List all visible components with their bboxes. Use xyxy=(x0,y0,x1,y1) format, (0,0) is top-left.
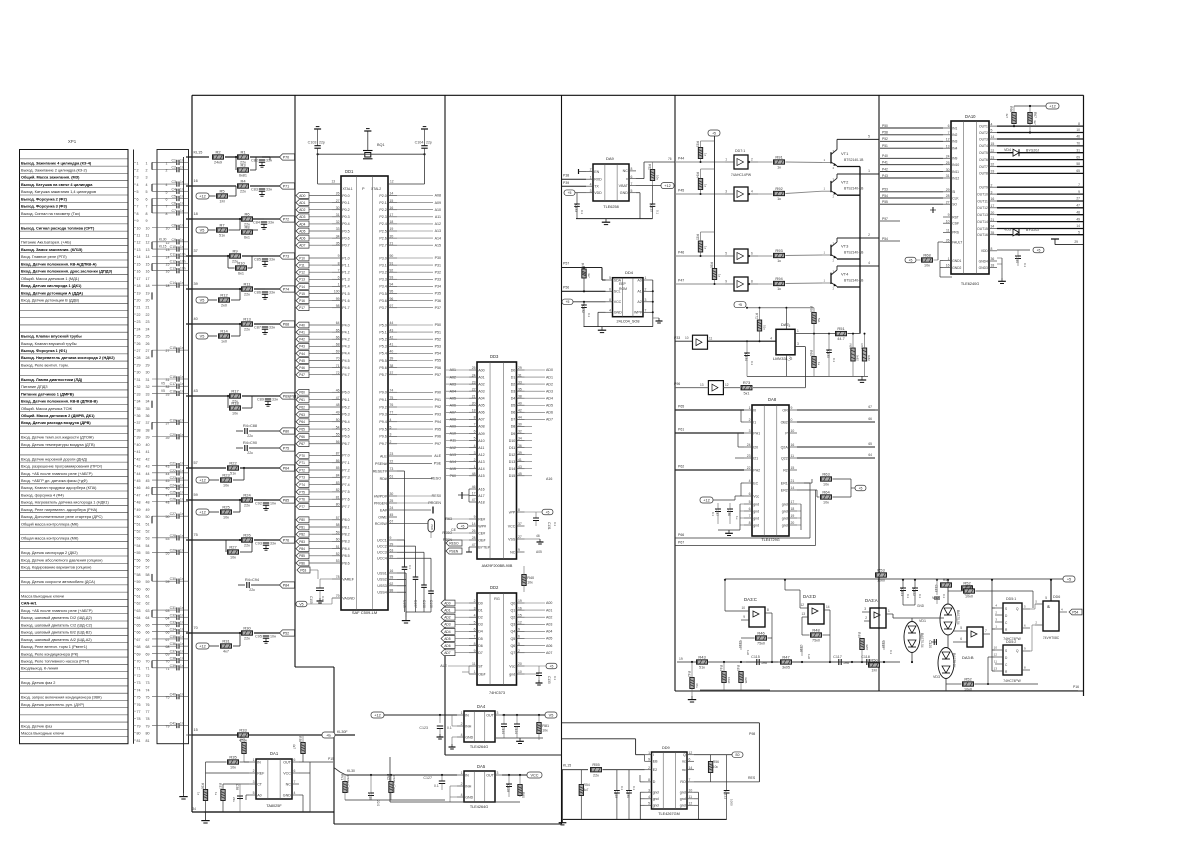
DA8 pin gnd 17 xyxy=(789,503,797,505)
svg-text:R14: R14 xyxy=(220,328,228,333)
power flag +12 d xyxy=(196,643,209,649)
resistor R60 xyxy=(812,357,816,368)
resistor R37 xyxy=(221,790,225,801)
svg-text:P5.4: P5.4 xyxy=(379,352,386,356)
svg-text:CT: CT xyxy=(257,782,263,786)
wire p67 path xyxy=(675,545,816,547)
svg-text:9: 9 xyxy=(146,219,148,223)
svg-text:OUT15: OUT15 xyxy=(977,227,988,231)
svg-text:44: 44 xyxy=(146,472,150,476)
svg-text:DA1: DA1 xyxy=(270,751,279,756)
wire da10 gnd xyxy=(997,257,1002,259)
svg-text:C86: C86 xyxy=(254,291,261,295)
voltage regulator DA5 TLE4264G xyxy=(464,771,495,802)
svg-text:6: 6 xyxy=(166,198,168,202)
svg-text:R84: R84 xyxy=(696,172,700,178)
DD1 pin P4.4 xyxy=(332,352,341,354)
svg-text:ALE: ALE xyxy=(440,664,447,668)
svg-text:C3: C3 xyxy=(172,180,177,184)
svg-text:DA3:B: DA3:B xyxy=(962,655,974,660)
svg-text:Масса Выходные ключи: Масса Выходные ключи xyxy=(21,732,64,736)
svg-text:1М: 1М xyxy=(219,200,224,204)
svg-text:R62: R62 xyxy=(430,524,434,530)
svg-text:66: 66 xyxy=(146,631,150,635)
svg-text:1н0: 1н0 xyxy=(746,650,750,655)
svg-text:1: 1 xyxy=(338,283,340,287)
svg-text:21: 21 xyxy=(472,394,476,398)
svg-text:C115: C115 xyxy=(751,655,760,659)
svg-text:16: 16 xyxy=(194,179,198,183)
svg-text:58: 58 xyxy=(146,573,150,577)
power flag +B xyxy=(322,732,335,738)
svg-text:65: 65 xyxy=(868,442,872,446)
svg-text:79: 79 xyxy=(336,594,340,598)
resistor R67 xyxy=(1028,113,1032,124)
svg-text:7: 7 xyxy=(146,205,148,209)
svg-text:P65: P65 xyxy=(678,405,684,409)
svg-text:19: 19 xyxy=(791,514,795,518)
comparator DA7 LMV331 xyxy=(776,329,795,355)
svg-text:P81: P81 xyxy=(299,525,305,529)
svg-text:D13: D13 xyxy=(509,460,516,464)
svg-text:DA3:C: DA3:C xyxy=(744,597,757,602)
DD1 pin P6.5 xyxy=(332,428,341,430)
svg-text:1: 1 xyxy=(253,758,255,762)
svg-text:P3.2: P3.2 xyxy=(379,271,386,275)
svg-text:P3.5: P3.5 xyxy=(379,292,386,296)
svg-text:87: 87 xyxy=(336,452,340,456)
svg-text:BTS2140-1B: BTS2140-1B xyxy=(844,279,864,283)
svg-text:+5: +5 xyxy=(550,664,554,668)
svg-text:Q0: Q0 xyxy=(511,601,516,605)
svg-text:OB2: OB2 xyxy=(781,420,788,424)
svg-text:Выход. Реле нагревател. адсорб: Выход. Реле нагревател. адсорбера (РНА) xyxy=(21,508,98,512)
svg-text:77: 77 xyxy=(137,710,141,714)
svg-text:R81: R81 xyxy=(542,724,549,728)
svg-text:59: 59 xyxy=(194,493,198,497)
svg-text:25: 25 xyxy=(390,499,394,503)
DD1 pin P9.5 xyxy=(388,428,397,430)
svg-text:75: 75 xyxy=(137,696,141,700)
svg-text:Вход/выход. К-линия: Вход/выход. К-линия xyxy=(21,667,58,671)
svg-text:57: 57 xyxy=(336,516,340,520)
diode assembly VD3 BAS70-04 xyxy=(938,648,954,679)
svg-text:P46: P46 xyxy=(299,366,305,370)
svg-text:9: 9 xyxy=(474,515,476,519)
svg-text:V5: V5 xyxy=(549,713,554,717)
svg-text:A14: A14 xyxy=(435,236,441,240)
svg-text:Выход. Замок зажигания. (КЛ15: Выход. Замок зажигания. (КЛ15) xyxy=(21,248,83,252)
net flag P74 xyxy=(280,286,295,292)
svg-text:P1.0: P1.0 xyxy=(342,256,349,260)
svg-text:А05: А05 xyxy=(536,550,542,554)
svg-text:OUT11: OUT11 xyxy=(977,199,988,203)
svg-text:C1: C1 xyxy=(172,158,177,162)
svg-text:P54: P54 xyxy=(882,237,888,241)
svg-text:AD6: AD6 xyxy=(546,411,553,415)
svg-text:AD0: AD0 xyxy=(444,601,451,605)
wire da5 out xyxy=(502,774,527,776)
svg-text:0.1: 0.1 xyxy=(553,676,557,681)
svg-text:R11: R11 xyxy=(243,281,251,286)
svg-text:P80: P80 xyxy=(283,429,289,433)
svg-text:1000: 1000 xyxy=(730,799,734,806)
svg-text:1: 1 xyxy=(749,406,751,410)
svg-text:R40: R40 xyxy=(527,576,534,580)
DA10 pin OUT16 xyxy=(989,234,997,236)
svg-text:TLE6258: TLE6258 xyxy=(603,205,618,209)
bottom rail da1 xyxy=(204,811,310,813)
svg-text:AD4: AD4 xyxy=(444,630,451,634)
svg-text:35: 35 xyxy=(991,231,995,235)
svg-text:P8.3: P8.3 xyxy=(342,540,349,544)
svg-text:R4=C90: R4=C90 xyxy=(243,441,257,445)
svg-text:C136: C136 xyxy=(727,508,731,516)
svg-text:2к0: 2к0 xyxy=(221,304,227,308)
wire dd4 gnd xyxy=(598,311,606,313)
svg-text:A10: A10 xyxy=(435,208,441,212)
frame border bottom right section xyxy=(675,690,1084,692)
svg-text:A11: A11 xyxy=(435,215,441,219)
resistor R38 xyxy=(301,743,305,754)
resistor R51 xyxy=(941,583,952,587)
DD1 pin P5.3 xyxy=(388,345,397,347)
svg-text:P2.3: P2.3 xyxy=(379,215,386,219)
opamp DA3:C xyxy=(749,607,765,627)
DD1 pin PSEN xyxy=(388,463,397,465)
connector XP1 table frame xyxy=(20,150,129,744)
svg-text:R58: R58 xyxy=(849,343,853,349)
svg-text:8: 8 xyxy=(648,778,650,782)
svg-text:Вход. Датчик детонации А (ДДА: Вход. Датчик детонации А (ДДА) xyxy=(21,291,84,295)
DD2 pin D3 xyxy=(469,623,477,625)
svg-text:39: 39 xyxy=(518,451,522,455)
svg-text:0к82: 0к82 xyxy=(867,355,871,361)
net flag P85 xyxy=(280,497,295,503)
svg-text:25: 25 xyxy=(472,366,476,370)
svg-text:7: 7 xyxy=(474,423,476,427)
DD3 pin A06 xyxy=(469,411,477,413)
svg-text:I20: I20 xyxy=(753,445,758,449)
svg-text:65: 65 xyxy=(1076,169,1080,173)
svg-text:R51: R51 xyxy=(837,326,845,331)
svg-text:gnd: gnd xyxy=(753,523,759,527)
svg-text:22: 22 xyxy=(390,460,394,464)
svg-text:3: 3 xyxy=(137,176,139,180)
DD1 pin P7.4 xyxy=(332,484,341,486)
DD1 pin P8.0 xyxy=(332,519,341,521)
svg-text:4: 4 xyxy=(770,337,772,341)
DD1 pin P2.5 xyxy=(388,230,397,232)
svg-text:Выход. шаговый двигатель D/2: Выход. шаговый двигатель D/2 (ШД-Д2) xyxy=(21,616,93,620)
capacitor C130dd2 xyxy=(538,666,540,673)
svg-text:23: 23 xyxy=(137,320,141,324)
svg-text:5: 5 xyxy=(648,802,650,806)
resistor R35 xyxy=(228,760,239,764)
svg-text:4: 4 xyxy=(648,795,650,799)
svg-text:OUT14: OUT14 xyxy=(977,220,988,224)
svg-text:+5: +5 xyxy=(738,303,742,307)
svg-text:100: 100 xyxy=(334,290,340,294)
svg-text:BTS2140-1B: BTS2140-1B xyxy=(844,187,864,191)
svg-text:A18: A18 xyxy=(478,500,484,504)
DA10 pin IN12 xyxy=(943,177,951,179)
svg-text:P75: P75 xyxy=(299,490,305,494)
svg-text:KL30F: KL30F xyxy=(337,730,348,734)
svg-text:R86: R86 xyxy=(710,262,714,268)
svg-text:vPP: vPP xyxy=(509,510,516,514)
svg-text:R2: R2 xyxy=(783,468,788,472)
svg-text:KL15: KL15 xyxy=(194,151,203,155)
DD3 pin A00 xyxy=(469,369,477,371)
svg-text:A00: A00 xyxy=(478,368,484,372)
capacitor bank box xyxy=(157,150,189,744)
svg-text:10: 10 xyxy=(946,219,950,223)
power flag +5 da8 xyxy=(855,485,866,491)
power flag +5 dd3 xyxy=(542,509,553,515)
svg-text:2: 2 xyxy=(590,168,592,172)
svg-text:P54: P54 xyxy=(435,352,441,356)
svg-text:30: 30 xyxy=(946,168,950,172)
svg-text:P9.2: P9.2 xyxy=(379,405,386,409)
wire vd1 bottom xyxy=(911,653,913,663)
DA10 pin OUT14 xyxy=(989,221,997,223)
svg-text:RO: RO xyxy=(680,780,686,784)
wire bottom gnd rail left xyxy=(345,799,445,801)
svg-text:P90: P90 xyxy=(435,391,441,395)
capacitor C137 xyxy=(717,503,719,509)
svg-text:4к7: 4к7 xyxy=(292,744,296,749)
svg-text:2: 2 xyxy=(518,649,520,653)
DA7 pin 3 wire xyxy=(795,346,805,348)
svg-text:BAS70-04: BAS70-04 xyxy=(956,610,960,625)
svg-text:6: 6 xyxy=(948,124,950,128)
svg-text:+12: +12 xyxy=(199,644,205,648)
svg-text:6: 6 xyxy=(294,769,296,773)
svg-text:EEP: EEP xyxy=(619,282,627,286)
svg-text:P2.0: P2.0 xyxy=(379,194,386,198)
svg-text:P47: P47 xyxy=(299,373,305,377)
svg-text:82: 82 xyxy=(336,488,340,492)
svg-text:R34: R34 xyxy=(239,736,243,742)
svg-text:Вход. +АБ после главного реле: Вход. +АБ после главного реле (+АБГР) xyxy=(21,472,93,476)
wire dd9 gnd left xyxy=(640,791,644,793)
svg-text:P1.2: P1.2 xyxy=(342,271,349,275)
resistor R94 xyxy=(774,281,785,285)
svg-text:19: 19 xyxy=(137,291,141,295)
power flag +12 xyxy=(196,193,209,199)
svg-text:D2: D2 xyxy=(478,616,483,620)
frame border left panel divider x192 xyxy=(191,95,193,735)
svg-text:77: 77 xyxy=(390,411,394,415)
DD1 pin P8.2 xyxy=(332,533,341,535)
wire dd4 gnd rail xyxy=(584,326,653,328)
svg-text:P70: P70 xyxy=(283,155,289,159)
capacitor C87 xyxy=(262,326,268,328)
resistor R73 xyxy=(741,386,752,390)
svg-text:P5.5: P5.5 xyxy=(379,359,386,363)
DA10 pin IN4 xyxy=(943,147,951,149)
frame border top xyxy=(192,94,1084,96)
resistor R18 xyxy=(230,406,241,410)
DD2 pin D7 xyxy=(469,652,477,654)
svg-text:40: 40 xyxy=(137,443,141,447)
svg-text:Общий. Масса датчиков 2 (ДМРВ: Общий. Масса датчиков 2 (ДМРВ, ДК1) xyxy=(21,414,95,418)
svg-text:1: 1 xyxy=(474,670,476,674)
svg-text:P30: P30 xyxy=(435,256,441,260)
DD1 pin P1.1 xyxy=(332,264,341,266)
svg-text:27: 27 xyxy=(518,535,522,539)
svg-text:OUT3: OUT3 xyxy=(979,137,988,141)
svg-text:20: 20 xyxy=(137,298,141,302)
svg-text:57: 57 xyxy=(194,461,198,465)
DD1 pin P9.0 xyxy=(388,391,397,393)
svg-text:21: 21 xyxy=(146,306,150,310)
svg-text:69: 69 xyxy=(1076,155,1080,159)
DA10 pin IN11 xyxy=(943,171,951,173)
svg-text:22: 22 xyxy=(146,313,150,317)
connector vertical pin links xyxy=(151,162,153,169)
svg-text:Q7: Q7 xyxy=(511,651,516,655)
svg-text:51: 51 xyxy=(137,522,141,526)
svg-text:18: 18 xyxy=(390,220,394,224)
DD1 pin P5.0 xyxy=(388,324,397,326)
svg-text:47: 47 xyxy=(146,493,150,497)
svg-text:P39: P39 xyxy=(563,181,569,185)
svg-text:40: 40 xyxy=(194,317,198,321)
DD1 pin P2.0 xyxy=(388,195,397,197)
svg-text:67: 67 xyxy=(390,520,394,524)
svg-text:Выход. Форсунка 1 (Ф1): Выход. Форсунка 1 (Ф1) xyxy=(21,349,68,353)
wire y755 long xyxy=(445,754,562,756)
flash memory DD3 AM29F200BB-90B xyxy=(477,362,517,559)
svg-text:4: 4 xyxy=(137,183,139,187)
svg-text:34: 34 xyxy=(137,400,141,404)
svg-text:2: 2 xyxy=(461,782,463,786)
svg-text:P6.6: P6.6 xyxy=(342,435,349,439)
resistor R52 bottom xyxy=(963,682,974,686)
svg-text:NC: NC xyxy=(286,782,292,786)
DD1 pin P2.7 xyxy=(388,244,397,246)
svg-text:Q: Q xyxy=(683,753,686,757)
DA8 pin gnd 7 xyxy=(744,517,752,519)
svg-text:6: 6 xyxy=(338,276,340,280)
svg-text:2: 2 xyxy=(474,599,476,603)
DD1 pin P6.6 xyxy=(332,435,341,437)
svg-text:29: 29 xyxy=(518,366,522,370)
wire crystal horizontal xyxy=(318,153,425,155)
svg-text:R23: R23 xyxy=(222,472,230,477)
svg-text:C10: C10 xyxy=(170,245,176,249)
svg-text:49: 49 xyxy=(336,411,340,415)
svg-text:11: 11 xyxy=(689,795,693,799)
svg-text:D2: D2 xyxy=(511,382,516,386)
svg-text:6: 6 xyxy=(609,288,611,292)
svg-text:PRS: PRS xyxy=(952,231,960,235)
svg-text:DD5:1: DD5:1 xyxy=(1006,597,1016,601)
svg-text:D: D xyxy=(653,780,656,784)
svg-text:P77: P77 xyxy=(299,505,305,509)
svg-text:15: 15 xyxy=(137,262,141,266)
svg-text:A04: A04 xyxy=(478,397,484,401)
svg-text:47: 47 xyxy=(137,493,141,497)
svg-text:35: 35 xyxy=(146,407,150,411)
DD1 pin P1.5 xyxy=(332,293,341,295)
svg-text:C32: C32 xyxy=(170,613,176,617)
svg-text:C5: C5 xyxy=(172,195,177,199)
svg-text:BYG20J: BYG20J xyxy=(1026,149,1039,153)
svg-text:P6.4: P6.4 xyxy=(342,420,349,424)
svg-text:IN: IN xyxy=(465,713,469,717)
DD3 pin A02 xyxy=(469,383,477,385)
svg-text:P2.4: P2.4 xyxy=(379,222,386,226)
svg-text:85: 85 xyxy=(336,466,340,470)
svg-text:0.1: 0.1 xyxy=(587,313,591,318)
resistor R7 xyxy=(217,228,228,232)
DA8 pin I1 2 xyxy=(744,421,752,423)
capacitor C132 xyxy=(583,301,585,303)
svg-text:V5: V5 xyxy=(161,382,165,386)
junction dots bottom rail xyxy=(691,661,693,663)
svg-text:10: 10 xyxy=(518,670,522,674)
DD1 pin P8.4 xyxy=(332,548,341,550)
svg-text:C40: C40 xyxy=(170,693,176,697)
svg-text:+5: +5 xyxy=(712,131,716,135)
power flag +5 da9 xyxy=(564,190,575,196)
svg-text:P1.5: P1.5 xyxy=(342,292,349,296)
svg-text:8: 8 xyxy=(767,608,769,612)
wire da8 er pins xyxy=(797,482,812,484)
svg-text:R47: R47 xyxy=(782,654,790,659)
net flag P52 xyxy=(280,630,295,636)
DD1 pin P6.7 xyxy=(332,443,341,445)
svg-text:39: 39 xyxy=(390,357,394,361)
svg-text:52: 52 xyxy=(146,530,150,534)
svg-text:0.1: 0.1 xyxy=(918,594,922,599)
svg-text:0.1: 0.1 xyxy=(632,786,636,791)
wire vd1 top xyxy=(911,618,913,622)
wire kl30 curve xyxy=(335,768,341,772)
svg-text:19: 19 xyxy=(390,227,394,231)
svg-text:5: 5 xyxy=(1045,596,1047,600)
svg-text:74VHT08C: 74VHT08C xyxy=(1043,636,1060,640)
svg-text:+5: +5 xyxy=(909,258,913,262)
svg-text:A13: A13 xyxy=(435,229,441,233)
svg-text:V5: V5 xyxy=(299,602,303,606)
DA8 pin ER2 14 xyxy=(789,489,797,491)
svg-text:37: 37 xyxy=(390,371,394,375)
DD3 pin D4 xyxy=(517,397,525,399)
svg-text:33н: 33н xyxy=(269,326,275,330)
svg-text:47: 47 xyxy=(472,543,476,547)
svg-text:VCC: VCC xyxy=(614,300,622,304)
svg-text:P7.1: P7.1 xyxy=(342,461,349,465)
svg-text:IN9: IN9 xyxy=(952,157,957,161)
svg-text:1н: 1н xyxy=(735,516,739,520)
DD2 pin D6 xyxy=(469,645,477,647)
svg-text:79: 79 xyxy=(146,724,150,728)
svg-text:3: 3 xyxy=(797,342,799,346)
resistor R84 xyxy=(698,179,702,190)
svg-text:10n: 10n xyxy=(180,259,186,263)
svg-text:UCC1: UCC1 xyxy=(377,538,387,542)
svg-text:P43: P43 xyxy=(299,345,305,349)
svg-text:NC: NC xyxy=(510,550,516,554)
svg-text:Б0: Б0 xyxy=(735,753,739,757)
svg-text:C11: C11 xyxy=(170,252,176,256)
svg-text:86: 86 xyxy=(336,459,340,463)
svg-text:46: 46 xyxy=(137,486,141,490)
